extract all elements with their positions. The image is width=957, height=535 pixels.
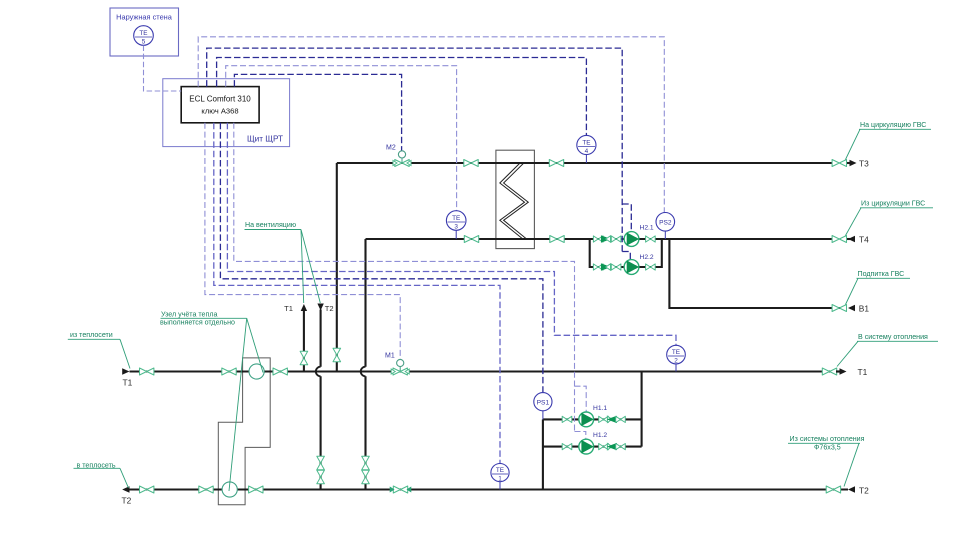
arrow B1 inlet: [848, 305, 855, 311]
pipe: heating supply T1: [130, 370, 837, 372]
wire 1 controller to PS2: [198, 37, 664, 213]
svg-text:TE: TE: [582, 140, 590, 147]
leader to return meter: [229, 318, 247, 491]
pipe: DHW make-up B1 branch: [669, 239, 846, 308]
valve heating supply inlet: [140, 368, 154, 375]
leader to vent return arrow: [301, 230, 320, 304]
pipe: H2 pump bypass: [590, 239, 662, 267]
svg-text:Подпитка ГВС: Подпитка ГВС: [858, 270, 905, 278]
jump-over jog on vent return at supply crossing: [316, 367, 321, 377]
valve before supply meter: [222, 368, 236, 375]
pipe: DHW circulation T4 line: [366, 238, 834, 240]
svg-text:2: 2: [674, 358, 678, 365]
svg-text:В систему отопления: В систему отопления: [858, 333, 928, 341]
valve on T4 line right of HX: [550, 236, 564, 243]
svg-text:5: 5: [142, 39, 146, 46]
svg-text:H1.2: H1.2: [593, 432, 607, 439]
controller box ECL Comfort 310: [181, 87, 259, 123]
leader to vent supply arrow: [301, 230, 304, 304]
svg-text:из теплосети: из теплосети: [70, 331, 113, 339]
wire 5 controller to M2: [234, 74, 401, 150]
svg-text:4: 4: [585, 148, 589, 155]
wire TE5 to controller: [144, 46, 182, 92]
balancing valve on return: [393, 486, 407, 493]
svg-text:Из системы отопления: Из системы отопления: [790, 435, 865, 443]
arrow vent supply up: [301, 304, 307, 311]
svg-text:ECL Comfort 310: ECL Comfort 310: [189, 95, 251, 104]
jump-over jog on HX return drop at supply crossing: [361, 367, 366, 377]
pipe: primary riser to HX: [336, 163, 338, 372]
motor valve M1: [399, 367, 401, 372]
wire A controller to pumps H1.1 H1.2: [234, 123, 586, 439]
pressure switch PS1: [542, 411, 544, 420]
wire C controller to PS1: [220, 123, 543, 393]
wire D controller to TE1: [214, 123, 500, 464]
H2.2 branch: valve, check, valve, pump, valve: [593, 264, 603, 270]
svg-text:PS2: PS2: [659, 220, 672, 227]
heat exchanger body: [496, 150, 535, 248]
H1.2 branch: valve, pump, valve, check, valve: [562, 444, 572, 450]
sensor TE2: [675, 364, 677, 372]
arrow heating return outlet: [122, 486, 129, 493]
svg-text:H2.2: H2.2: [640, 254, 654, 261]
pressure switch PS2: [664, 231, 666, 239]
svg-text:На циркуляцию ГВС: На циркуляцию ГВС: [860, 121, 926, 129]
sensor TE5 circle: [134, 26, 154, 46]
svg-text:Щит ЩРТ: Щит ЩРТ: [247, 135, 283, 144]
pipe: T3 end stub: [847, 162, 851, 164]
valve after return meter: [249, 486, 263, 493]
arrow T4 inlet: [848, 236, 855, 242]
pipe: heating return T2: [130, 488, 849, 490]
svg-text:T3: T3: [859, 159, 869, 169]
valve heating return inlet T2 (right end): [826, 486, 840, 493]
pipe: H1 mixing pump circuit: [543, 372, 642, 490]
H1.1 branch: valve, pump, valve, check, valve: [562, 416, 572, 422]
pipe: HX primary return drop: [364, 239, 366, 490]
panel box Щит ЩРТ: [163, 79, 290, 147]
valve T4 inlet: [832, 236, 846, 243]
svg-text:На вентиляцию: На вентиляцию: [245, 221, 297, 229]
leader to supply meter: [247, 318, 263, 372]
pipe: ventilation return branch: [320, 310, 322, 490]
svg-text:H1.1: H1.1: [593, 405, 607, 412]
sensor TE3: [455, 230, 457, 239]
svg-text:T1: T1: [123, 378, 133, 388]
svg-text:выполняется отдельно: выполняется отдельно: [160, 319, 235, 327]
svg-text:M1: M1: [385, 353, 395, 360]
wire B controller to TE2: [227, 123, 676, 345]
svg-text:Узел учёта тепла: Узел учёта тепла: [161, 311, 217, 319]
arrow T1 outlet: [840, 368, 847, 375]
svg-text:TE: TE: [139, 30, 147, 37]
svg-text:3: 3: [454, 224, 458, 231]
svg-text:PS1: PS1: [537, 399, 550, 406]
svg-text:TE: TE: [672, 349, 680, 356]
valve on T3 line right of HX: [549, 160, 563, 167]
svg-text:T2: T2: [859, 486, 869, 496]
wire 2 controller to pumps H2.1 H2.2: [207, 48, 623, 251]
svg-text:T2: T2: [122, 496, 132, 506]
arrow heating supply inlet: [122, 368, 129, 375]
arrow vent return down: [317, 304, 323, 311]
double valves on vent return branch: [317, 456, 325, 470]
pipe: DHW supply T3 line: [337, 162, 833, 164]
valve on T4 line left of HX: [464, 236, 478, 243]
flow meter on return: [222, 482, 237, 497]
svg-text:T1: T1: [858, 367, 868, 377]
svg-text:T4: T4: [859, 235, 869, 245]
valve B1 inlet: [832, 305, 846, 312]
sensor TE1: [499, 482, 501, 490]
flow meter on supply: [249, 364, 264, 379]
arrow T2 inlet: [848, 486, 855, 493]
sensor TE4: [585, 155, 587, 164]
pipe: ventilation supply branch: [303, 310, 305, 372]
svg-text:B1: B1: [859, 304, 870, 314]
valve on riser: [333, 348, 341, 362]
svg-text:Наружная стена: Наружная стена: [116, 13, 173, 22]
svg-text:TE: TE: [496, 467, 504, 474]
svg-text:H2.1: H2.1: [640, 225, 654, 232]
wire 4 controller to TE3: [226, 66, 457, 211]
svg-text:Из циркуляции ГВС: Из циркуляции ГВС: [861, 200, 925, 208]
svg-text:M2: M2: [386, 145, 396, 152]
svg-text:ключ А368: ключ А368: [201, 107, 238, 116]
valve on vent supply branch: [300, 351, 308, 365]
heat exchanger coil zigzag: [500, 163, 525, 239]
svg-text:T2: T2: [325, 304, 334, 313]
pipe: T4 end stub: [847, 238, 851, 240]
wire 3 controller to TE4: [217, 58, 587, 136]
double valves on HX return drop: [362, 456, 370, 470]
arrow T3 outlet: [850, 160, 857, 166]
valve after supply meter: [273, 368, 287, 375]
svg-text:T1: T1: [284, 304, 293, 313]
outdoor wall box (Наружная стена): [110, 8, 179, 56]
motor valve M2: [401, 158, 403, 163]
svg-text:1: 1: [498, 476, 502, 483]
H2.1 branch: valve, check, valve, pump, valve: [593, 236, 603, 242]
valve on T3 line left of HX: [464, 160, 478, 167]
wire E controller to M1: [205, 123, 400, 359]
valve heating supply outlet T1: [822, 368, 836, 375]
svg-text:TE: TE: [452, 215, 460, 222]
valve T3 outlet: [832, 160, 846, 167]
heat meter unit stepped outline: [218, 358, 270, 505]
svg-text:Ф76х3,5: Ф76х3,5: [814, 444, 841, 452]
valve before return meter: [199, 486, 213, 493]
valve heating return outlet T2 (left end): [140, 486, 154, 493]
